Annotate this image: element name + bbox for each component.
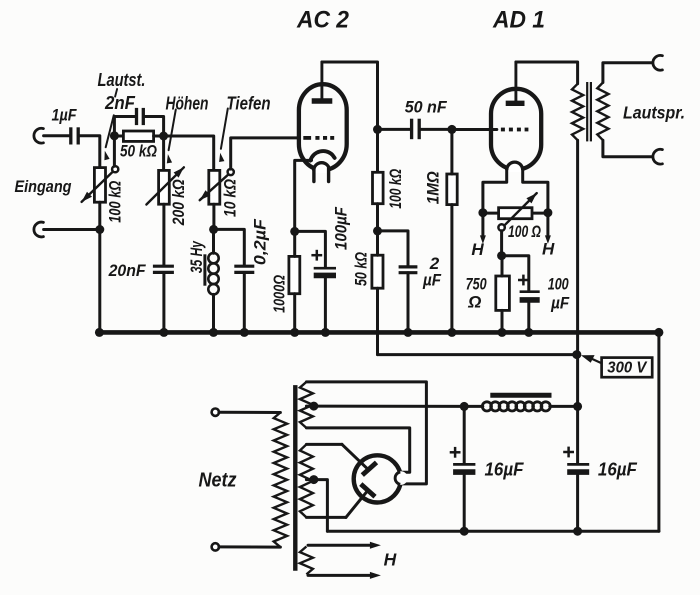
svg-text:100 kΩ: 100 kΩ [107,181,125,223]
wire HV bottom lead to anode [306,491,367,517]
tube AC2 cathode [310,151,334,161]
node B junction [159,132,168,141]
wire 35Hy to rail [212,294,215,332]
junction 16uF right neg [573,527,582,536]
label 16uF left [485,459,525,480]
svg-text:0,2µF: 0,2µF [252,218,270,265]
label Netz [199,470,237,492]
wire 1000 Ohm to rail [293,294,296,333]
wire 100 Ohm pot to filament right [532,212,548,215]
svg-text:20nF: 20nF [108,261,146,280]
junction choke left [460,402,469,411]
wire AC2 anode to top [322,62,378,128]
svg-text:16µF: 16µF [598,459,638,480]
wire secondary top to jack [603,63,653,83]
svg-text:16µF: 16µF [485,459,525,480]
svg-text:Lautst.: Lautst. [98,70,146,90]
svg-text:1MΩ: 1MΩ [424,171,442,204]
output transformer primary winding [572,84,583,140]
capacitor 20nF [153,266,174,272]
capacitor 0.2uF [234,266,254,272]
output transformer secondary winding [597,83,608,141]
tube AD1 filament pedestal [483,170,548,213]
rail junction pot1 [95,328,104,337]
label H right [542,240,555,259]
wire volume pot to rail [98,202,101,332]
ground rail wire [99,330,659,335]
svg-text:35 Hy: 35 Hy [188,241,206,274]
wire 2uF to rail [407,273,410,333]
resistor 1M (grid leak) [447,174,457,205]
speaker jack top [653,55,662,70]
label Tiefen [227,94,271,114]
label 750 Ohm sign [467,293,481,312]
junction filament winding tap [309,402,318,411]
choke inductor [482,402,550,411]
svg-text:100 kΩ: 100 kΩ [387,169,405,209]
heater arrow left [480,213,486,244]
tube AD1 envelope [491,89,541,170]
resistor 750 Ohm [496,276,510,310]
wire cathode node to 100uF [295,231,326,267]
wire 16uF left top [463,406,466,463]
wire secondary bottom to jack [603,140,653,157]
heater lead arrow 2 [308,572,381,579]
wire choke stub right [550,405,578,408]
node C junction (Tiefen bottom) [209,225,218,234]
rail junction right end [654,328,663,337]
junction choke right [573,402,582,411]
wiper terminal circle 10k pot [228,169,234,175]
wire wiper riser to node A [113,138,116,167]
tube AC2 anode [312,62,333,101]
capacitor 100uF (AD1 cathode) [518,275,540,300]
resistor 1000 Ohm (cathode) [289,256,300,293]
power transformer core [293,385,297,571]
svg-text:10 kΩ: 10 kΩ [222,179,240,217]
label 1MOhm [424,171,442,204]
wire cathode node to 750 [501,256,504,276]
node cathode AC2 junction [290,227,299,236]
wire 2nF loop left [114,117,134,136]
rectifier anode 1 [362,462,376,475]
svg-text:Ω: Ω [467,293,481,312]
svg-text:H: H [542,240,555,259]
svg-text:300 V: 300 V [607,360,647,377]
label 300 V [607,360,647,377]
wire 100uF to rail [324,278,327,333]
heater lead arrow 1 [308,542,381,549]
wire 100uF2 to rail [527,303,530,333]
wire HV top lead to anode [306,444,367,469]
label 50 kOhm [120,142,157,161]
wire 100k to node D [376,204,379,231]
svg-text:AD 1: AD 1 [492,7,545,34]
label 50 nF [405,98,448,117]
svg-text:Eingang: Eingang [15,177,73,196]
capacitor 100uF (AC2 cathode) [311,250,336,276]
wire B+ tap to choke [306,405,464,408]
label Eingang [15,177,73,196]
label uF [422,271,441,290]
wire filament winding bottom lead [306,428,409,472]
svg-text:Lautspr.: Lautspr. [623,103,685,123]
wire node A to 50k [114,135,123,138]
svg-text:50 nF: 50 nF [405,98,448,117]
label AC 2 [296,7,350,34]
potentiometer 100 Ohm (hum) [499,193,537,225]
label 100 (AD1 cap) [548,275,569,294]
leader arrow Hoehen [167,110,176,164]
speaker jack bottom [653,149,662,164]
rectifier anode 2 [361,484,375,497]
label H bottom [384,550,397,570]
resistor 100k (anode load) [373,172,384,203]
inductor 35Hy [205,253,219,295]
wire filament winding top lead [306,382,426,484]
svg-text:µF: µF [550,294,569,313]
capacitor 16uF right [563,447,589,473]
resistor 50k (parallel) [123,131,153,141]
input jack (Eingang top) [34,128,43,143]
wire 0.2uF to rail [243,273,246,333]
rectifier filament notch [394,471,408,485]
label H left [471,240,484,259]
wire cathode node to 100uF2 [502,256,529,291]
label 0,2uF [252,218,270,265]
wire input jack to 1uF [44,134,70,137]
wire 50nF to node E [421,128,452,131]
junction 16uF left neg [460,527,469,536]
choke core bar [490,393,551,398]
leader arrow Lautst. to pot [104,115,113,160]
svg-text:750: 750 [466,275,487,294]
wire HV tap to neg line [306,480,327,532]
input jack (Eingang bottom) [34,222,43,237]
power transformer primary winding [274,413,287,548]
rail junction 1000Ohm [290,328,299,337]
tube AC2 envelope [299,84,347,170]
wire AC2 cathode lead [295,160,312,231]
label Lautspr. [623,103,685,123]
resistor 50k (decoupling) [372,255,383,288]
svg-text:H: H [384,550,397,570]
wire node C to 0.2uF [214,229,245,265]
svg-text:50 kΩ: 50 kΩ [353,252,371,286]
potentiometer 100k (Lautst. volume) [82,168,113,203]
wire node C to 35Hy coil [212,229,215,253]
wire node E to 1M [450,129,453,174]
capacitor 2uF [399,267,418,273]
label 2nF [104,93,136,113]
wire mains bottom lead [219,545,281,548]
wire 20nF to rail [162,273,165,333]
wire node E to AD1 grid [452,128,497,131]
label uF (AD1 cap) [550,294,569,313]
label 10 kOhm [222,179,240,217]
potentiometer 10k (Tiefen) [200,170,228,204]
label 2 [429,254,440,273]
wire filament left to 100 Ohm pot [483,212,499,215]
wire anode node to 50nF [378,128,411,131]
label 100uF rotated [332,206,350,250]
wire AD1 anode to transformer [516,62,578,84]
node 300V junction [572,350,581,359]
wire 50k to node B [154,135,164,138]
wire 16uF left bottom [463,475,466,532]
junction filament right [543,208,552,217]
svg-text:200 kΩ: 200 kΩ [170,179,188,226]
capacitor 16uF left [450,447,476,472]
wire 2nF loop right [145,117,164,136]
svg-text:1000Ω: 1000Ω [272,275,289,313]
svg-text:AC 2: AC 2 [296,7,350,34]
label 100 kOhm anode [387,169,405,209]
mains terminal bottom [212,543,219,550]
rail junction 100uF-1 [321,328,330,337]
wire Hoehen pot to 20nF [162,204,165,265]
svg-text:Höhen: Höhen [166,94,209,114]
wire node D to 2uF [378,231,409,266]
wire 1uF to volume pot top [79,136,100,168]
wiper terminal circle 100 Ohm [498,224,504,230]
wire choke stub left [464,405,483,408]
junction lower jack node [95,225,104,234]
svg-text:µF: µF [422,271,441,290]
wire Tiefen pot down [212,204,215,229]
capacitor 50nF [412,119,420,140]
wire cathode node to 1000 Ohm [293,231,296,256]
tube AD1 pinch notch [507,162,523,172]
tube AD1 grid dashes [501,128,529,132]
rail junction 0.2uF [240,328,249,337]
wire node B to Tiefen corner [164,136,214,170]
capacitor 1uF [71,127,78,144]
rectifier tube envelope [354,455,401,502]
label 35 Hy [188,241,206,274]
rectifier filament winding [300,382,313,428]
rail junction 35Hy [209,328,218,337]
node cathode AD1 junction [497,251,506,260]
wire 300V line [378,353,577,356]
svg-text:1µF: 1µF [52,106,78,125]
wiper terminal circle 100k pot [112,166,118,172]
wire 750 to rail [501,310,504,332]
svg-text:2nF: 2nF [104,93,136,113]
label 1uF [52,106,78,125]
label 750 [466,275,487,294]
label 16uF right [598,459,638,480]
svg-text:50 kΩ: 50 kΩ [120,142,157,161]
mains terminal top [212,409,219,416]
wire lower jack to pot bottom node [44,228,100,231]
label Lautst. [98,70,146,90]
tube AC2 heater pin stubs [314,168,329,182]
box 300V [602,358,653,378]
label 200 kOhm [170,179,188,226]
rail junction 20nF [159,328,168,337]
label 50 kOhm decoupling [353,252,371,286]
negative line wire [327,530,659,533]
leader arrow Tiefen [219,109,228,163]
label AD 1 [492,7,545,34]
tube AD1 anode [506,62,525,103]
rail junction 2uF [404,328,413,337]
node E junction (AD1 grid) [447,125,456,134]
wire mains top lead [219,411,281,414]
rail junction 100uF-2 [524,328,533,337]
node D junction (decoupling) [373,226,382,235]
junction HV center tap [309,475,318,484]
label 1000 Ohm [272,275,289,313]
svg-text:Netz: Netz [199,470,237,492]
wire anode node to 100k [376,129,379,172]
rail junction 750Ohm [498,328,507,337]
HV winding [300,444,313,517]
wire 50k to 300V line [376,288,379,354]
label Hoehen [166,94,209,114]
wire 1M to rail [450,205,453,333]
tube AC2 grid dashes [303,136,334,140]
wire 16uF right bottom [576,475,579,532]
output transformer core [587,82,591,141]
label 100 kOhm [107,181,125,223]
heater winding [300,547,313,575]
capacitor 2nF [137,108,144,125]
svg-text:100: 100 [548,275,569,294]
svg-text:Tiefen: Tiefen [227,94,271,114]
wire grid AC2 from Tiefen wiper [231,138,299,169]
wire right edge rail to neg line [657,332,660,531]
leader line Lautst. [115,89,117,97]
rail junction 1M [447,328,456,337]
wire node B down to Hoehen pot [162,136,165,170]
arrow to 300V [581,355,602,363]
svg-text:100µF: 100µF [332,206,350,250]
node anode AC2 junction [373,125,382,134]
tube AC2 pinch notch [314,163,330,173]
junction filament left [478,208,487,217]
potentiometer 200k (Hoehen) [146,167,184,204]
wire wiper to cathode node [500,231,503,256]
node A junction [110,131,119,140]
label 20nF [108,261,146,280]
wire node D to 50k [376,231,379,255]
heater arrow right [545,213,551,244]
svg-text:100 Ω: 100 Ω [508,223,541,241]
label 100 Ohm [508,223,541,241]
wire primary bottom down [576,140,579,463]
svg-text:H: H [471,240,484,259]
